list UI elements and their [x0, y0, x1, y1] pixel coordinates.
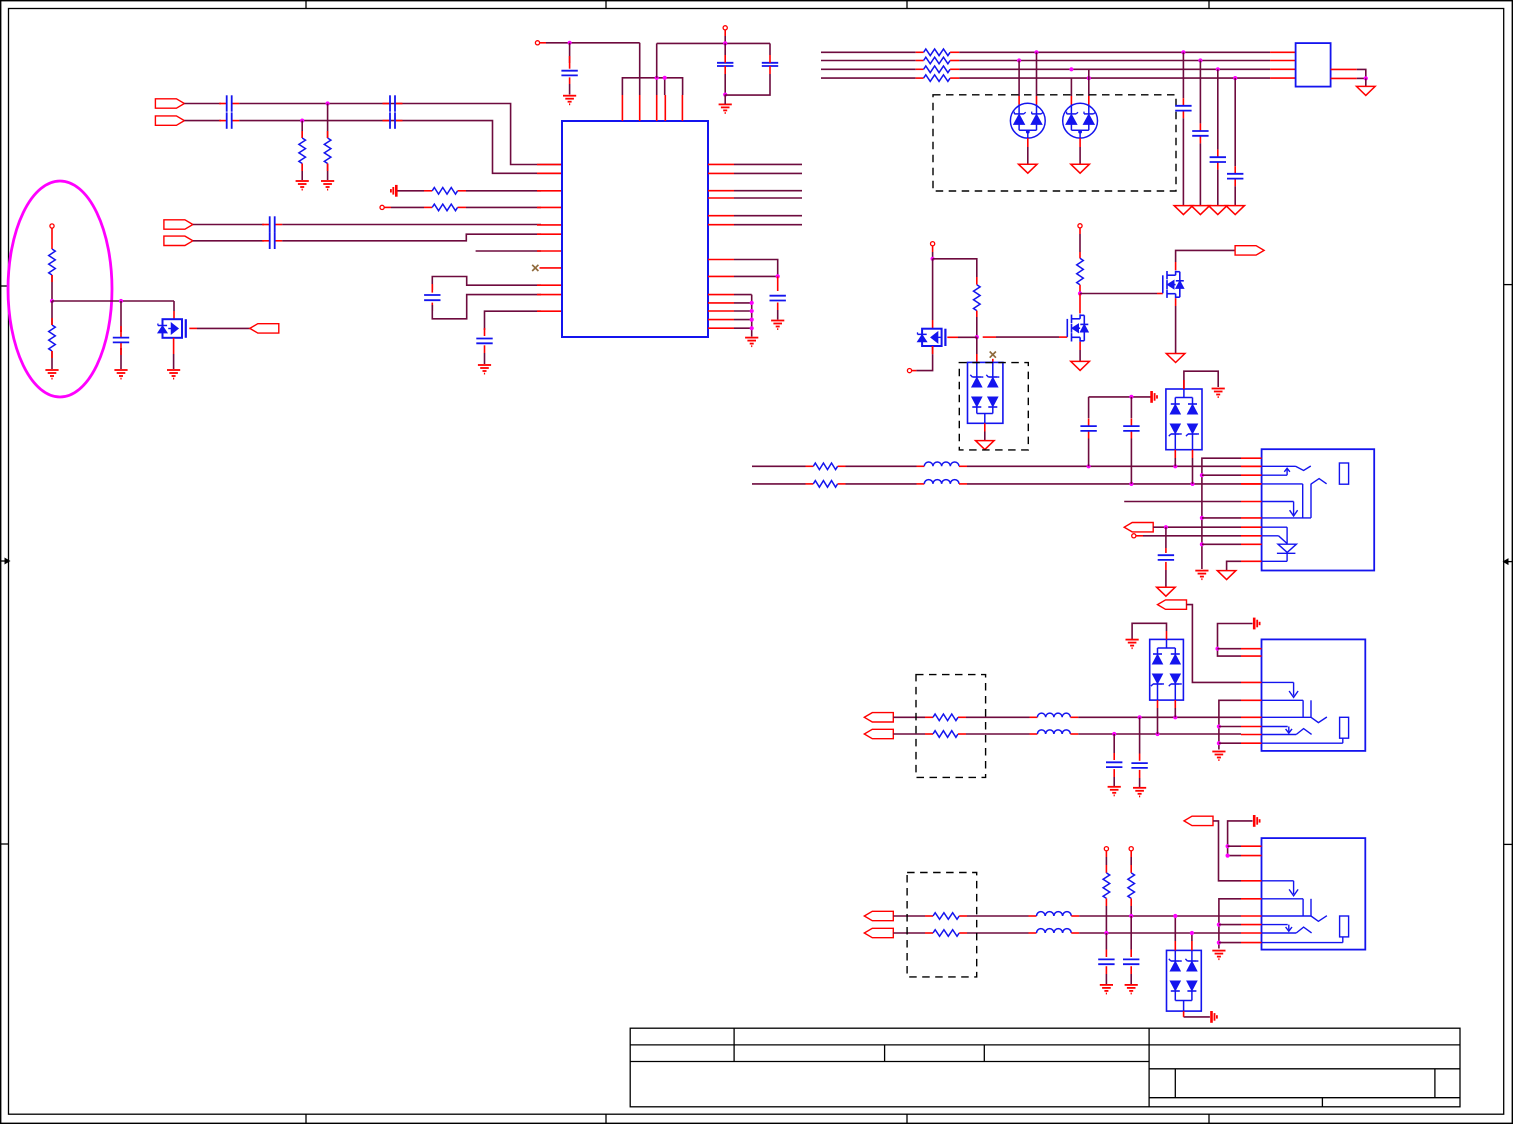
pin stub IC row1 — [537, 190, 562, 192]
pin stub JACK1 7 — [1241, 734, 1262, 736]
wire jack1 C mid — [958, 716, 1037, 718]
port USB p7 — [1124, 523, 1153, 532]
wire TVS jack2 right pin — [1191, 933, 1193, 950]
port JACK2 detect — [1184, 816, 1213, 825]
ground IC right — [745, 338, 758, 347]
junction jack1 D cap — [1112, 732, 1116, 736]
capacitor C18 — [1123, 419, 1139, 439]
wire bracket pin4 drop — [664, 78, 666, 95]
resistor R20 divider upper — [49, 249, 56, 275]
wire IC pin r8 — [734, 275, 778, 277]
inductor L5 — [1037, 912, 1072, 916]
capacitor C20 — [113, 330, 129, 350]
wire cap top rail — [1089, 396, 1151, 398]
wire R1 to ground — [301, 164, 303, 181]
connector JACK1 internal contacts — [1262, 682, 1349, 743]
wire C21 drop — [1113, 734, 1115, 760]
inductor L4 — [1037, 730, 1070, 734]
wire R17 down — [1105, 898, 1107, 933]
pin stub IC top 4 — [664, 95, 666, 121]
node USB p8 — [1132, 534, 1136, 538]
node Q1 source — [907, 369, 911, 373]
wire bracket pin3 drop — [656, 78, 658, 95]
wire Q5 gate — [189, 327, 250, 329]
ground J1 — [1357, 86, 1376, 95]
transistor Q5 — [158, 319, 186, 338]
resistor R12 — [813, 481, 837, 488]
wire loop cap lower stub — [431, 303, 433, 311]
TVS diode D3 — [968, 362, 1003, 423]
wire pin2 up — [639, 43, 641, 95]
wire bus cap 2 lower — [1199, 143, 1201, 205]
wire jack1 p8 — [1219, 742, 1241, 744]
pin stub IC right gnd 3 — [708, 310, 734, 312]
capacitor C9 — [561, 63, 577, 84]
wire C9 drop — [569, 43, 571, 63]
inductor L6 — [1037, 929, 1072, 933]
ground rotated jack1 p1p2 — [1254, 618, 1259, 630]
port JACK1 detect — [1158, 600, 1187, 609]
ground C19 — [1157, 587, 1176, 596]
wire IC gnd pin 1 — [734, 294, 752, 296]
wire R1 drop — [301, 121, 303, 138]
pin stub IC right gnd 1 — [708, 294, 734, 296]
pin stub IC pin8 — [540, 267, 563, 269]
connector J1 box — [1296, 43, 1331, 87]
wire tvs circle 2 gnd — [1079, 138, 1081, 164]
pin stub USB 7 — [1241, 526, 1262, 528]
ground C22 — [1133, 788, 1146, 797]
pin stub USB 9 — [1241, 543, 1262, 545]
border zone tick bottom 4 — [1208, 1114, 1210, 1123]
wire pair2B — [193, 240, 264, 242]
ground rotated jack2 p1p2 — [1254, 815, 1259, 827]
wire R21 to ground — [51, 351, 53, 369]
border zone tick top 3 — [906, 1, 908, 9]
capacitor C16 bus — [1227, 166, 1243, 186]
wire jack2 D left — [893, 932, 933, 934]
wire loop upper — [432, 277, 541, 291]
wire jack2 p6 — [1219, 924, 1241, 926]
pin stub USB 2 — [1241, 465, 1262, 467]
wire pin11 to C8 — [485, 311, 542, 330]
resistor R8 bus — [924, 75, 951, 82]
wire jack2 p8 — [1219, 942, 1241, 944]
wire jack1 p1p2 gnd — [1218, 624, 1253, 657]
capacitor C15 bus — [1210, 150, 1226, 170]
junction B cap — [1129, 482, 1133, 486]
wire tvs circle 1 gnd — [1027, 138, 1029, 164]
capacitor C10 — [717, 43, 733, 74]
border zone tick bottom 3 — [906, 1114, 908, 1123]
wire dangling pin7 — [476, 250, 541, 252]
wire row1 left — [398, 190, 433, 192]
wire C19 to gnd — [1165, 562, 1167, 587]
junction bracket pin3 — [655, 76, 659, 80]
junction divider mid — [50, 299, 54, 303]
ground Q2 — [1071, 361, 1090, 370]
pin stub IC row2 — [537, 206, 562, 208]
TVS diode D4 — [1166, 389, 1202, 450]
ground TVS2 — [1212, 389, 1225, 398]
wire USB A mid — [838, 465, 925, 467]
wire bus cap 2 upper — [1199, 61, 1201, 124]
dashed box ESD TVS1 — [959, 363, 1028, 450]
wire tvs circle 2 left drop — [1070, 78, 1072, 104]
junction B tvs — [1190, 482, 1194, 486]
pin stub IC right 1 — [708, 163, 734, 165]
wire TVS2 top — [1184, 371, 1218, 389]
capacitor C17 — [1080, 419, 1096, 439]
ground TVS jack1 — [1126, 640, 1139, 649]
wire USB p10 gnd — [1227, 561, 1241, 570]
border zone tick top 4 — [1208, 1, 1210, 9]
pin stub IC pair1A — [537, 164, 562, 166]
pin stub USB 4 — [1241, 483, 1262, 485]
wire USB p7 — [1153, 526, 1241, 528]
wire gnd C10 stub — [724, 95, 726, 104]
ground jack1 bus — [1212, 752, 1225, 761]
node R10 top — [1078, 224, 1082, 228]
wire row1 right — [458, 190, 541, 192]
pin stub IC right 5 — [708, 215, 734, 217]
wire R18 top — [1130, 851, 1132, 873]
wire USB A left — [752, 465, 813, 467]
wire IC gnd pin 5 — [734, 327, 752, 329]
resistor R18 — [1128, 873, 1135, 899]
node R17 top — [1104, 847, 1108, 851]
junction J1 gnd — [1364, 76, 1368, 80]
wire TVS jack1 right pin — [1174, 700, 1176, 717]
pin stub IC loop lower — [537, 294, 562, 296]
pin stub JACK2 5 — [1241, 915, 1262, 917]
wire USB p5 dangling — [1124, 501, 1241, 503]
port pair2 B — [164, 236, 193, 245]
wire bus cap 1 lower — [1182, 118, 1184, 205]
resistor R17 — [1103, 873, 1110, 899]
wire TVS jack1 left pin — [1157, 700, 1159, 734]
no-connect X TVS1 — [990, 352, 996, 358]
pin stub IC right 3 — [708, 190, 734, 192]
connector USB box — [1262, 449, 1375, 570]
wire IC pin r7 — [734, 260, 778, 277]
wire C17 to A — [1088, 439, 1090, 467]
ground rotated TVS jack2 — [1212, 1011, 1217, 1023]
node Q1 top — [931, 242, 935, 246]
wire R17 cap — [1105, 933, 1107, 957]
ground C12 — [771, 321, 784, 330]
wire IC gnd pin 3 — [734, 310, 752, 312]
capacitor C19 — [1158, 555, 1174, 560]
wire divider mid — [51, 275, 53, 301]
wire row2 left — [384, 206, 432, 208]
wire C10 to junction — [724, 74, 726, 95]
pin stub JACK2 1 — [1241, 845, 1262, 847]
ground rotated USB caps — [1152, 391, 1157, 403]
capacitor C21 — [1106, 762, 1122, 767]
pin stub JACK1 3 — [1241, 681, 1262, 683]
wire TVS jack2 left pin — [1174, 916, 1176, 950]
node VIN divider top — [50, 224, 54, 228]
resistor R7 bus — [924, 66, 951, 73]
junction VDD left — [568, 41, 572, 45]
pin stub JACK1 1 — [1241, 648, 1262, 650]
junction gnd bus 4 — [750, 326, 754, 330]
pin stub IC pin7 — [537, 250, 562, 252]
wire jack2 p1p2 gnd — [1228, 821, 1253, 856]
pin stub IC right gnd 2 — [708, 302, 734, 304]
wire Q2 drain — [1079, 294, 1081, 314]
wire VCC bracket — [622, 78, 682, 95]
border zone tick top 1 — [305, 1, 307, 9]
wire Q1 drain — [932, 259, 934, 329]
wire Q5 drain — [173, 301, 175, 319]
wire USB B mid — [838, 483, 925, 485]
junction pair1A — [326, 101, 330, 105]
wire cap C20 drop — [120, 301, 122, 332]
junction jack2 p1 — [1226, 844, 1230, 848]
junction Q1 gate node — [975, 335, 979, 339]
border zone tick left lower — [1, 843, 9, 845]
pin stub IC top 5 — [681, 95, 683, 121]
wire pair1A to C1 — [184, 103, 221, 105]
resistor R4 — [432, 204, 457, 211]
wire jack1 p1 — [1218, 648, 1242, 650]
wire divider to R21 — [51, 301, 53, 325]
wire IC right 2 — [734, 172, 802, 174]
wire TVS1 gnd — [984, 423, 986, 440]
pin stub IC right 7 — [708, 259, 734, 261]
wire TVS jack2 gnd stub — [1183, 1011, 1185, 1017]
pin stub IC loop upper — [537, 284, 562, 286]
wire jack2 C mid — [959, 915, 1036, 917]
border zone tick top 2 — [605, 1, 607, 9]
wire jack1 p3 route — [1187, 605, 1242, 683]
junction cap rail — [1129, 395, 1133, 399]
wire C8 upper stub — [484, 328, 486, 336]
junction bus1 tvs — [1034, 50, 1038, 54]
junction jack2 C tvs — [1173, 914, 1177, 918]
wire gnd bus — [751, 295, 753, 337]
wire C24 gnd — [1130, 966, 1132, 984]
dashed box ESD array top — [933, 95, 1176, 191]
wire R10 bottom — [1079, 285, 1081, 294]
wire USB B left — [752, 483, 813, 485]
wire bus cap 3 upper — [1217, 69, 1219, 149]
port pair1 A — [155, 99, 184, 108]
wire R17 top — [1105, 851, 1107, 873]
TVS diode D5 — [1150, 639, 1184, 700]
wire jack2 D mid — [959, 932, 1036, 934]
junction R17 D2 — [1104, 931, 1108, 935]
wire bus4 right — [950, 77, 1296, 79]
ground C9 — [563, 96, 576, 105]
node VDD left — [535, 41, 539, 45]
wire C12 drop — [777, 276, 779, 291]
junction Q1 top — [931, 257, 935, 261]
TVS diode D1 — [1010, 103, 1045, 138]
junction USB p7 cap — [1164, 525, 1168, 529]
wire divider tap horizontal — [52, 300, 174, 302]
wire Q1 gate — [947, 336, 977, 338]
pin stub IC pin11 — [537, 310, 562, 312]
wire jack2 C right — [1071, 915, 1241, 917]
pin stub JACK2 4 — [1241, 898, 1262, 900]
dashed box jack2 series — [907, 873, 977, 977]
transistor Q1 — [918, 329, 946, 346]
wire VDD left — [540, 42, 640, 44]
pin stub IC right 2 — [708, 172, 734, 174]
ground TVS D1 — [1019, 164, 1038, 173]
wire C22 gnd — [1139, 770, 1141, 787]
junction gnd bus 2 — [750, 309, 754, 313]
wire USB B right — [959, 483, 1262, 485]
wire jack2 D right — [1071, 932, 1241, 934]
ground USB p10 — [1217, 571, 1236, 580]
ground bus cap 4 — [1226, 206, 1245, 215]
junction gnd bus 3 — [750, 318, 754, 322]
wire USB p3 — [1202, 474, 1241, 476]
border zone tick right upper — [1504, 284, 1513, 286]
port Q3 out — [1235, 246, 1264, 255]
resistor R11 — [813, 463, 837, 470]
resistor R1 — [299, 138, 306, 164]
junction R10 Q2 — [1078, 291, 1082, 295]
title block — [630, 1028, 1460, 1107]
wire bus cap 4 lower — [1234, 186, 1236, 205]
wire Q1 source — [932, 346, 934, 354]
resistor R5 bus — [924, 49, 951, 56]
junction jack2 p2 — [1226, 854, 1230, 858]
capacitor C12 — [770, 296, 786, 301]
pin stub JACK2 8 — [1241, 942, 1262, 944]
wire TVS jack1 top — [1132, 623, 1166, 639]
ground C8 — [478, 365, 491, 374]
wire divider top stub — [51, 228, 53, 249]
wire IC gnd pin 2 — [734, 302, 752, 304]
junction jack1 C tvs — [1173, 715, 1177, 719]
capacitor C24 — [1123, 959, 1139, 964]
wire C18 to B — [1130, 439, 1132, 484]
wire C11 to junction — [725, 74, 770, 95]
ground jack2 bus — [1212, 951, 1225, 960]
wire TVS jack1 top stub — [1166, 631, 1168, 639]
junction jack1 p8 — [1217, 741, 1221, 745]
wire R9 lower — [976, 311, 978, 338]
wire tvs circle 1 left drop — [1018, 61, 1020, 105]
border zone tick right lower — [1504, 843, 1513, 845]
junction jack1 D tvs — [1155, 732, 1159, 736]
wire pair1A C1 to IC — [239, 104, 562, 165]
junction A tvs — [1173, 464, 1177, 468]
port pair1 B — [155, 116, 184, 125]
resistor R13 — [933, 714, 958, 721]
border zone tick left upper — [1, 285, 9, 287]
junction jack2 D tvs — [1190, 931, 1194, 935]
pin stub IC top 2 — [639, 95, 641, 121]
wire bus3 left — [821, 68, 924, 70]
wire Q1 source 2 — [916, 346, 932, 371]
ground bus cap 2 — [1191, 206, 1210, 215]
port JACK1 L — [864, 713, 893, 722]
inductor L1 — [924, 462, 959, 466]
junction A cap — [1087, 464, 1091, 468]
resistor R3 — [432, 188, 457, 195]
pin stub JACK2 6 — [1241, 924, 1262, 926]
wire bus cap 4 upper — [1234, 78, 1236, 166]
wire C9 to ground — [569, 84, 571, 95]
pin stub JACK1 6 — [1241, 726, 1262, 728]
pin stub JACK1 8 — [1241, 742, 1262, 744]
wire pair1B C2 to IC — [239, 121, 562, 174]
wire row2 right — [458, 206, 541, 208]
ground R2 — [321, 181, 334, 190]
wire gate node to TVS — [976, 337, 978, 362]
pin stub IC top 1 — [621, 95, 623, 121]
wire C11 branch — [769, 43, 771, 55]
junction jack1 p1 — [1215, 647, 1219, 651]
junction jack1 p6 — [1217, 724, 1221, 728]
pin stub IC pair2A — [537, 224, 562, 226]
pin stub TVS1 right top — [992, 359, 994, 363]
wire R18 down — [1130, 898, 1132, 916]
pin stub IC right 6 — [708, 224, 734, 226]
wire Q1 top stub — [932, 246, 934, 259]
capacitor C3 — [383, 95, 403, 111]
port JACK1 R — [864, 729, 893, 738]
wire R9 upper stub — [976, 277, 978, 285]
junction USB gnd p6 — [1200, 516, 1204, 520]
wire J1 out lower — [1331, 77, 1366, 79]
wire tvs circle 2 right drop — [1088, 69, 1090, 104]
pin stub JACK1 5 — [1241, 716, 1262, 718]
pin stub USB 5 — [1241, 501, 1262, 503]
border center arrow left — [1, 558, 11, 565]
pin stub USB 8 — [1241, 535, 1262, 537]
wire C22 drop — [1139, 717, 1141, 761]
wire jack2 p4 gnd bus — [1219, 899, 1241, 949]
wire VDD right — [657, 42, 770, 44]
ground C23 — [1100, 985, 1113, 994]
junction jack2 p8 — [1217, 941, 1221, 945]
wire Q2 source — [1079, 342, 1081, 361]
port JACK2 R — [864, 928, 893, 937]
junction C10 C11 — [723, 93, 727, 97]
wire bus2 left — [821, 60, 924, 62]
wire TVS2 left pin — [1174, 450, 1176, 467]
wire R18 cap — [1130, 916, 1132, 957]
wire loop cap upper stub — [431, 284, 433, 293]
ground C10 C11 — [719, 104, 732, 113]
ground TVS D2 — [1071, 164, 1090, 173]
junction pair1B — [300, 119, 304, 123]
wire pair2A — [193, 224, 264, 226]
wire bus2 right — [950, 60, 1296, 62]
wire jack1 p4 gnd bus — [1219, 700, 1241, 749]
wire R2 drop — [327, 104, 329, 139]
pin stub IC pair1B — [537, 172, 562, 174]
dashed box jack1 series — [916, 675, 986, 778]
ground Q5 — [167, 370, 180, 379]
wire jack2 p1 — [1228, 845, 1241, 847]
IC U1 — [562, 121, 708, 337]
junction USB gnd p3 — [1200, 473, 1204, 477]
transistor Q2 — [1067, 314, 1088, 342]
junction bus4 tvs — [1087, 76, 1091, 80]
node R18 top — [1129, 847, 1133, 851]
wire C21 gnd — [1113, 769, 1115, 786]
junction VDD right — [723, 41, 727, 45]
